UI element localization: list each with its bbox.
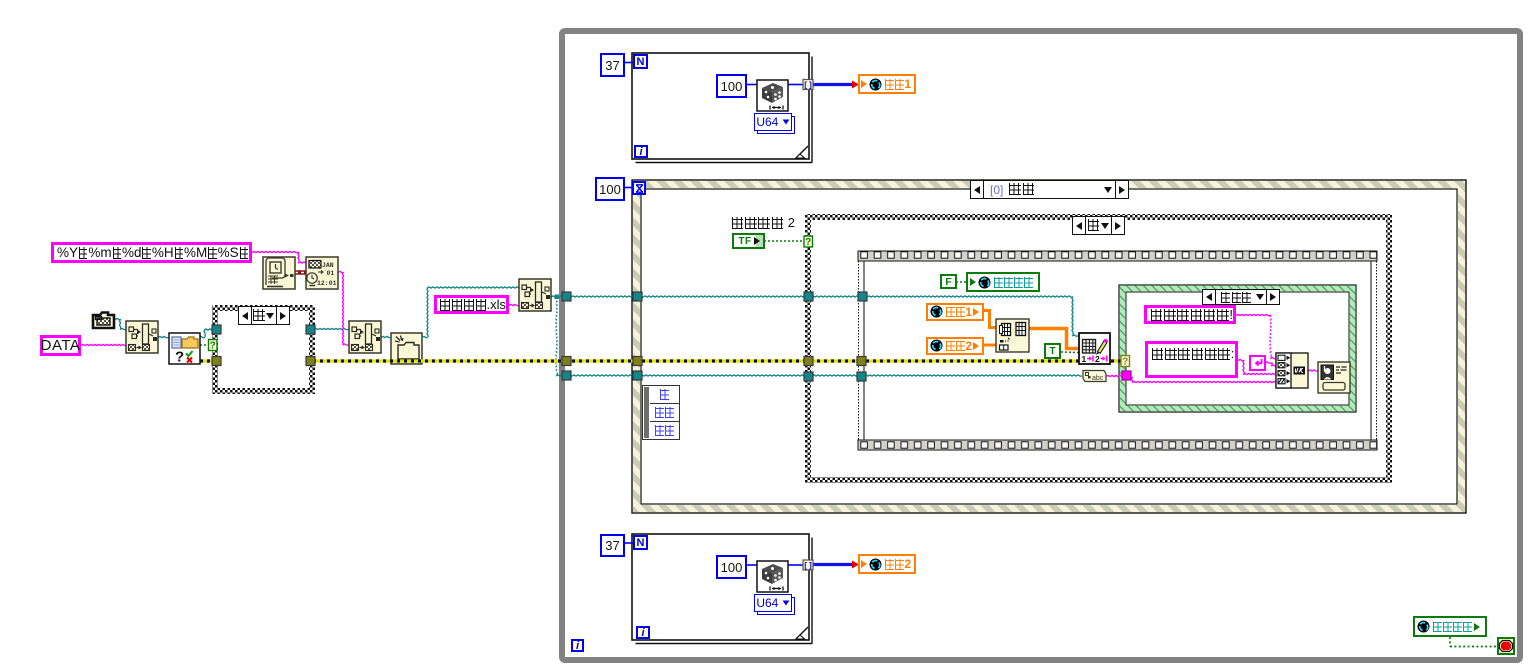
svg-text:?: ?	[1122, 357, 1128, 368]
svg-text:?: ?	[210, 341, 216, 352]
svg-text:[]: []	[803, 82, 813, 91]
svg-text:01: 01	[327, 270, 335, 277]
svg-text:?: ?	[175, 349, 184, 366]
svg-text:12:01: 12:01	[317, 280, 337, 287]
svg-text:JAN: JAN	[322, 262, 334, 269]
svg-text:[]: []	[803, 562, 813, 571]
svg-text:1: 1	[1082, 354, 1087, 364]
svg-text:abc: abc	[1092, 375, 1104, 382]
svg-text:2: 2	[1095, 354, 1100, 364]
svg-text:?: ?	[805, 237, 811, 248]
